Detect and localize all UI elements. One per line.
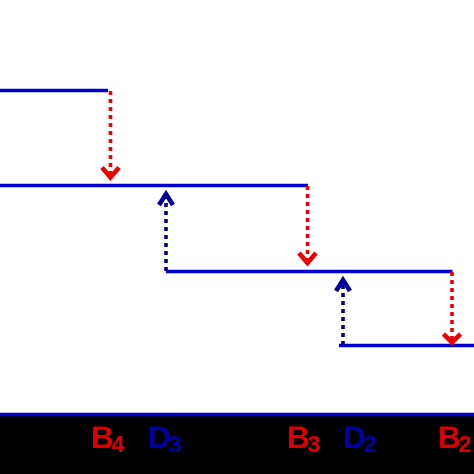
level line B4 (L1) xyxy=(0,89,108,93)
svg-text:3: 3 xyxy=(169,431,182,457)
red down arrow 1 shaft xyxy=(109,91,113,178)
svg-text:B: B xyxy=(287,419,310,455)
svg-text:2: 2 xyxy=(364,431,377,457)
svg-text:2: 2 xyxy=(459,431,472,457)
svg-text:D: D xyxy=(343,419,366,455)
svg-text:B: B xyxy=(438,419,461,455)
svg-text:B: B xyxy=(91,419,114,455)
red down arrow 3 head xyxy=(444,334,461,343)
svg-text:4: 4 xyxy=(112,431,125,457)
baseline long line xyxy=(0,413,474,417)
blue up arrow 1 head xyxy=(159,194,173,205)
level line B2 (L3) xyxy=(166,270,453,274)
svg-text:3: 3 xyxy=(308,431,321,457)
red down arrow 2 head xyxy=(299,253,316,263)
red down arrow 3 shaft xyxy=(450,272,454,341)
svg-text:D: D xyxy=(148,419,171,455)
red down arrow 1 head xyxy=(102,168,119,178)
blue up arrow 2 head xyxy=(336,280,350,291)
red down arrow 2 shaft xyxy=(306,186,310,263)
blue up arrow 1 shaft xyxy=(164,194,168,271)
level line B1 (L4) xyxy=(339,344,474,348)
level line B3 (L2) xyxy=(0,184,308,188)
blue up arrow 2 shaft xyxy=(341,280,345,345)
bottom transparent strip (raw black) xyxy=(0,413,474,474)
